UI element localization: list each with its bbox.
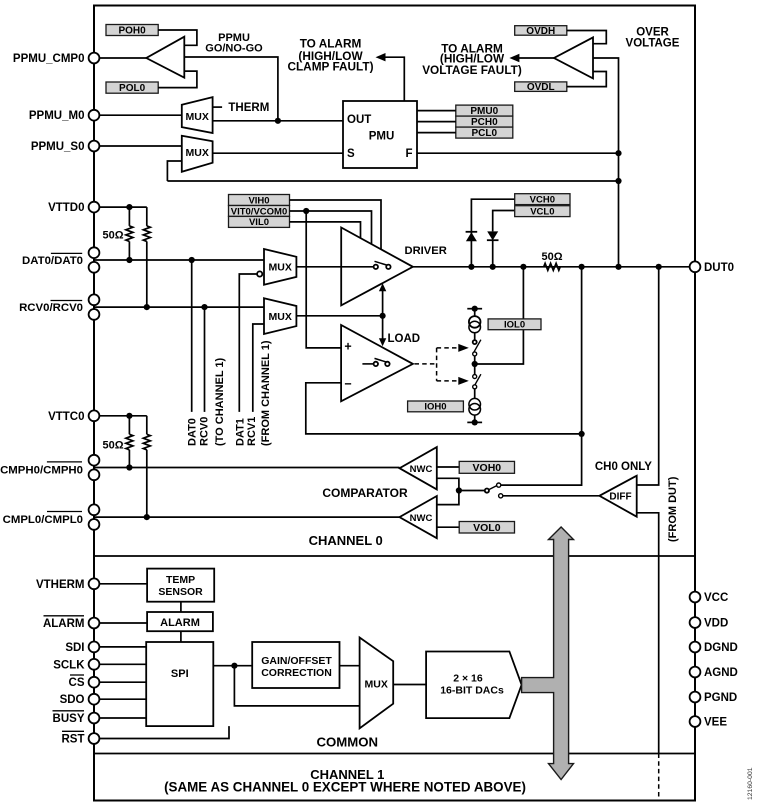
label RCV0/RCV0-bar (19, 301, 83, 314)
svg-text:DRIVER: DRIVER (405, 245, 447, 257)
svg-text:VCC: VCC (704, 592, 728, 604)
svg-text:VCL0: VCL0 (530, 207, 554, 218)
wire dot to switch pole (459, 490, 485, 492)
mux MUX5 (360, 638, 394, 729)
svg-text:−: − (344, 377, 351, 391)
wire VIH0 to driver (290, 200, 382, 250)
dashed wire from dut continuation (658, 754, 660, 798)
junction dot mux4 node (380, 313, 386, 319)
svg-text:PPMU_CMP0: PPMU_CMP0 (13, 53, 85, 65)
pin RST (89, 733, 100, 744)
svg-text:PGND: PGND (704, 692, 737, 704)
switch IOL upper (473, 340, 477, 344)
box PMU0 (456, 105, 513, 117)
svg-text:(TO CHANNEL 1): (TO CHANNEL 1) (214, 357, 226, 446)
box VIH0 (229, 195, 290, 207)
junction dot F line (615, 150, 621, 156)
wire OV comparator output arrow (512, 57, 554, 59)
op-amp LOAD (341, 325, 413, 401)
svg-text:50Ω: 50Ω (541, 251, 562, 263)
switch in driver (341, 266, 373, 268)
svg-text:TEMP: TEMP (166, 574, 195, 586)
svg-text:50Ω: 50Ω (103, 439, 124, 451)
arrowhead to alarm (clamp fault) (376, 53, 386, 61)
svg-text:PPMU_M0: PPMU_M0 (29, 110, 85, 122)
wire VTTD0 line (94, 206, 147, 208)
label PPMU_CMP0 (13, 53, 85, 65)
junction dot main line IOL chain (520, 264, 526, 270)
arrowhead IOL switch (458, 344, 469, 352)
label CMPL0/CMPL0-bar (3, 512, 83, 527)
svg-text:DGND: DGND (704, 642, 738, 654)
svg-text:(FROM DUT): (FROM DUT) (667, 476, 679, 542)
box VOH0 (459, 461, 514, 474)
resistor 50ohm R3 (VTTC0-CMPH0) (128, 416, 130, 435)
diode D1 (VCH0 clamp) (466, 231, 478, 233)
svg-text:MUX: MUX (269, 311, 292, 323)
switch IOH upper (473, 375, 477, 379)
junction dot comparator switch (456, 487, 462, 493)
pin VTHERM (89, 578, 100, 589)
wire POH0 to comparator (158, 30, 197, 45)
pin VEE (690, 716, 701, 727)
wire gain/offset to MUX5 (340, 665, 360, 667)
label PPMU_M0 (29, 110, 85, 122)
svg-text:RCV0: RCV0 (199, 417, 211, 446)
channel 0 / common separator line (94, 555, 695, 557)
resistor 50ohm output (544, 263, 561, 270)
wire ALARM pin to alarm block (94, 622, 147, 624)
box POL0 (106, 82, 158, 94)
svg-text:(SAME AS CHANNEL 0 EXCEPT WHER: (SAME AS CHANNEL 0 EXCEPT WHERE NOTED AB… (164, 780, 526, 795)
label VTTC0 (48, 411, 84, 423)
wire MUX2 to PMU S (213, 152, 343, 154)
box VIL0 (229, 216, 290, 228)
wire NWC2 upper input (437, 491, 459, 505)
svg-text:CORRECTION: CORRECTION (261, 667, 332, 679)
junction dot loop line (615, 178, 621, 184)
wire chain center to main line (475, 267, 524, 364)
junction dot chain center (472, 361, 478, 367)
mux MUX1 (182, 97, 213, 133)
svg-text:CMPL0/CMPL0: CMPL0/CMPL0 (3, 514, 83, 526)
wire NWC1 lower input (437, 478, 459, 490)
svg-text:IOH0: IOH0 (424, 402, 446, 413)
svg-text:GAIN/OFFSET: GAIN/OFFSET (261, 655, 332, 667)
label PPMU GO/NO-GO (205, 32, 263, 55)
block ALARM (147, 612, 213, 631)
pin CMPL0 (double circle) (89, 504, 100, 515)
resistor 50ohm R2 (VTTD0-RCV0) (146, 207, 148, 226)
label VTTD0 (48, 202, 84, 214)
svg-text:BUSY: BUSY (53, 713, 85, 725)
pin CS (89, 677, 100, 688)
common / channel 1 separator line (94, 753, 695, 755)
wire MUX4 output (296, 315, 382, 317)
svg-text:16-BIT DACs: 16-BIT DACs (440, 685, 504, 697)
wire MUX3 output to driver (296, 266, 375, 268)
junction dot SPI output (231, 663, 237, 669)
wire diode D1 to VCH0 (470, 232, 472, 267)
svg-text:SENSOR: SENSOR (158, 586, 203, 598)
wire diode D2 to VCL0 (492, 240, 494, 267)
switch in load (362, 363, 373, 365)
svg-text:DIFF: DIFF (609, 492, 631, 503)
block PMU (343, 101, 417, 168)
svg-text:MUX: MUX (186, 111, 209, 123)
mux MUX2 (182, 136, 213, 172)
wire VTHERM to temp sensor (94, 583, 147, 585)
wire PPMU_M0 to MUX1 (94, 114, 182, 116)
svg-text:S: S (347, 148, 355, 160)
label TO ALARM CLAMP FAULT (287, 36, 373, 73)
op-amp DRIVER (341, 228, 413, 306)
dashed wire to IOH switch (437, 380, 460, 382)
arrowhead into load (379, 338, 386, 346)
svg-text:+: + (344, 339, 351, 353)
wire VTTC0 line (94, 415, 147, 417)
wire chain bottom rail (467, 421, 482, 423)
mux MUX3 (DAT0/DAT1) (264, 249, 296, 285)
wire PMU F output (417, 152, 619, 154)
svg-text:VDD: VDD (704, 618, 728, 630)
wire center to IOH switch (474, 364, 476, 375)
junction dot VTTD0 (126, 204, 132, 210)
wire POL0 to comparator (158, 71, 197, 88)
box OVDL (515, 82, 567, 93)
junction dot R1-DAT0 (126, 257, 132, 263)
dashed wire vertical (436, 348, 438, 381)
svg-text:PMU0: PMU0 (470, 106, 498, 117)
pin PGND (690, 692, 701, 703)
arrowhead IOH switch (458, 377, 469, 385)
svg-text:VTTD0: VTTD0 (48, 202, 84, 214)
dashed wire load output (415, 363, 437, 365)
wire driver output main line (413, 266, 695, 268)
box PCL0 (456, 127, 513, 139)
wire MUX5 to DACs (393, 684, 426, 686)
svg-text:SDO: SDO (60, 694, 85, 706)
box VCL0 (515, 206, 570, 218)
svg-text:COMPARATOR: COMPARATOR (322, 486, 408, 500)
svg-text:PPMU_S0: PPMU_S0 (31, 141, 85, 153)
wire RCV0 to channel 1 (204, 307, 206, 412)
label BUSY-bar (53, 711, 85, 725)
svg-text:MUX: MUX (186, 147, 209, 159)
wire chain bottom (474, 415, 476, 422)
junction dot main line OV line (615, 264, 621, 270)
wire OV comparator input (593, 58, 619, 267)
wire VIT0 to load + (306, 211, 341, 348)
pin SDO (89, 694, 100, 705)
wire DAT1 from channel 1 (239, 274, 256, 412)
label VTHERM (36, 579, 85, 591)
svg-text:DAT0/DAT0: DAT0/DAT0 (22, 255, 83, 267)
current source IOH0 (469, 398, 481, 410)
svg-text:12160-001: 12160-001 (747, 767, 754, 800)
svg-text:VTTC0: VTTC0 (48, 411, 84, 423)
svg-text:LOAD: LOAD (388, 333, 421, 345)
svg-text:VOLTAGE FAULT): VOLTAGE FAULT) (422, 63, 522, 77)
junction dot D1 (468, 264, 474, 270)
pin AGND (690, 667, 701, 678)
label SCLK (53, 659, 85, 671)
svg-text:OVDL: OVDL (527, 82, 555, 93)
svg-text:PMU: PMU (369, 131, 395, 143)
svg-text:OUT: OUT (347, 114, 371, 126)
label DAT0/DAT0-bar (22, 253, 83, 266)
inverter bubble MUX3 input (257, 271, 262, 276)
svg-text:VOL0: VOL0 (473, 522, 501, 534)
svg-text:VCH0: VCH0 (530, 195, 555, 206)
svg-text:DAT0: DAT0 (187, 418, 199, 446)
current source IOL0 (469, 316, 481, 328)
wire SCLK to SPI (94, 663, 146, 665)
wire VIL0 to driver (290, 222, 361, 239)
junction dot MUX1-PMU / comparator (275, 118, 281, 124)
junction dot main line FROM DUT (656, 264, 662, 270)
buffer NWC1 (400, 447, 437, 489)
svg-text:2 × 16: 2 × 16 (453, 673, 483, 685)
pin DUT0 (690, 261, 701, 272)
wire load - input feedback (306, 383, 582, 434)
svg-text:PCH0: PCH0 (471, 117, 498, 128)
wire MUX2 second input from loop line (167, 161, 181, 181)
box POH0 (106, 25, 158, 37)
box IOL0 (488, 319, 541, 331)
pin DGND (690, 642, 701, 653)
dashed wire to IOL switch (437, 347, 460, 349)
junction dot VTTC-R1 CMPH0 (126, 464, 132, 470)
wire RCV0 line (94, 306, 264, 308)
pin DAT0 (double circle) (89, 247, 100, 258)
svg-text:F: F (405, 148, 412, 160)
wire switch to DUT0 sense (501, 267, 582, 485)
svg-text:VOH0: VOH0 (473, 462, 502, 474)
wire OVDH to OV comparator (567, 31, 607, 44)
resistor 50ohm R4 (VTTC0-CMPL0) (146, 416, 148, 435)
wire VIT0 to driver (290, 211, 372, 245)
wire chain (474, 309, 476, 317)
svg-text:DUT0: DUT0 (704, 262, 734, 274)
svg-text:CH0 ONLY: CH0 ONLY (595, 461, 652, 473)
wire mux4 node vertical (382, 285, 384, 344)
wire CMPH0 line (94, 467, 400, 469)
pin VDD (690, 617, 701, 628)
svg-text:OVDH: OVDH (526, 26, 555, 37)
svg-text:CS: CS (69, 677, 85, 689)
label CMPH0/CMPH0-bar (0, 462, 83, 477)
amp DIFF (CH0 only) (599, 476, 636, 517)
pin SCLK (89, 659, 100, 670)
wire BUSY to SPI (94, 717, 146, 719)
svg-text:ALARM: ALARM (43, 618, 85, 630)
switch comparator source (485, 489, 489, 493)
wire alarm to spi (180, 631, 182, 642)
svg-text:SDI: SDI (65, 642, 84, 654)
label SDO (60, 694, 85, 706)
svg-text:50Ω: 50Ω (103, 230, 124, 242)
svg-text:THERM: THERM (228, 102, 269, 114)
svg-text:AGND: AGND (704, 667, 738, 679)
svg-text:CLAMP FAULT): CLAMP FAULT) (287, 60, 373, 74)
svg-text:VIH0: VIH0 (248, 195, 269, 206)
label CS-bar (69, 675, 85, 689)
svg-text:NWC: NWC (410, 513, 433, 524)
buffer NWC2 (400, 496, 437, 538)
label PPMU_S0 (31, 141, 85, 153)
svg-text:GO/NO-GO: GO/NO-GO (205, 43, 263, 55)
junction dot R2-RCV0 (144, 304, 150, 310)
pin VTTC0 (89, 410, 100, 421)
junction dot VTTC-R2 CMPL0 (144, 514, 150, 520)
wire chain top rail (467, 308, 482, 310)
pin PPMU_M0 (89, 110, 100, 121)
svg-text:COMMON: COMMON (317, 734, 379, 749)
junction dot DAT0 branch (189, 257, 195, 263)
junction dot D2 (490, 264, 496, 270)
block SPI (146, 642, 213, 726)
junction dot main line cmp switch (579, 264, 585, 270)
svg-text:(FROM CHANNEL 1): (FROM CHANNEL 1) (260, 340, 272, 446)
pin VCC (690, 592, 701, 603)
wire PMU to PCL0 (417, 132, 456, 134)
wire temp sensor to alarm (180, 602, 182, 612)
junction dot feedback (579, 431, 585, 437)
wire DIFF lower input from DUT1 (637, 513, 659, 754)
svg-text:SCLK: SCLK (53, 659, 85, 671)
svg-text:MUX: MUX (365, 678, 388, 690)
box PCH0 (456, 116, 513, 128)
mux MUX4 (RCV0/RCV1) (264, 298, 296, 334)
pin BUSY (89, 713, 100, 724)
pin RCV0 (double circle) (89, 294, 100, 305)
svg-text:VTHERM: VTHERM (36, 579, 85, 591)
junction dot RCV0 branch (201, 304, 207, 310)
svg-text:DAT1: DAT1 (235, 418, 247, 446)
svg-text:VOLTAGE: VOLTAGE (626, 37, 680, 49)
arrowhead into driver (379, 283, 386, 291)
junction dot VTTC0 (126, 413, 132, 419)
svg-text:ALARM: ALARM (160, 617, 200, 629)
resistor 50ohm R1 (VTTD0-DAT0) (128, 207, 130, 226)
label TO ALARM VOLTAGE FAULT (422, 41, 522, 77)
box VCH0 (515, 194, 570, 206)
pin PPMU_CMP0 (89, 53, 100, 64)
wire SDO to SPI (94, 698, 146, 700)
arrowhead to alarm (voltage fault) (509, 54, 519, 62)
box OVDH (515, 26, 567, 37)
svg-text:CMPH0/CMPH0: CMPH0/CMPH0 (0, 465, 83, 477)
wire PMU to PCH0 (417, 121, 456, 123)
wire DIFF upper input from DUT0 (637, 267, 659, 485)
svg-text:RST: RST (62, 734, 85, 746)
svg-text:RCV1: RCV1 (246, 417, 258, 446)
wire SPI output to MUX5 lower (234, 666, 359, 706)
pin CMPH0 (double circle) (89, 455, 100, 466)
pin PPMU_S0 (89, 141, 100, 152)
wire loop line to mux2 (167, 180, 618, 182)
diode D2 (VCL0 clamp) (487, 231, 498, 240)
label SDI (65, 642, 84, 654)
wire switch to center (474, 356, 476, 364)
wire comparator output to PPMU_CMP0 (94, 57, 146, 59)
svg-text:VIT0/VCOM0: VIT0/VCOM0 (231, 206, 288, 217)
label RST-bar (62, 731, 85, 745)
svg-text:NWC: NWC (410, 464, 433, 475)
pin VTTD0 (89, 202, 100, 213)
pin SDI (89, 642, 100, 653)
wire THERM stub (213, 106, 223, 108)
wire DAT0 line (94, 259, 264, 261)
block 16-BIT DACs (426, 652, 521, 719)
wire PMU to PMU0 (417, 110, 456, 112)
wire DAT0 to channel 1 (191, 260, 193, 412)
svg-text:POL0: POL0 (119, 83, 146, 94)
wire cs to switch (474, 333, 476, 340)
wire MUX1 to PMU OUT (213, 120, 343, 122)
svg-text:RCV0/RCV0: RCV0/RCV0 (19, 302, 83, 314)
wire NWC2 to VOL0 (437, 526, 459, 528)
box IOH0 (408, 401, 464, 413)
wire RST to SPI (94, 726, 229, 738)
wire PPMU_S0 to MUX2 (94, 145, 182, 147)
comparator U1 PPMU go/no-go (146, 37, 184, 78)
wire SDI to SPI (94, 646, 146, 648)
wire NWC1 to VOH0 (437, 466, 459, 468)
junction dot VIT0 (303, 208, 309, 214)
svg-text:MUX: MUX (269, 262, 292, 274)
svg-text:VEE: VEE (704, 717, 727, 729)
svg-text:POH0: POH0 (118, 26, 146, 37)
wire OVDL to OV comparator (567, 72, 607, 87)
chip outline border (94, 6, 695, 801)
label ALARM-bar (43, 616, 85, 630)
wire RCV1 from channel 1 (253, 324, 264, 412)
label OVER VOLTAGE (626, 26, 680, 49)
wire comparator input from PMU OUT line (184, 57, 278, 121)
wire switch to IOH cs (474, 389, 476, 399)
svg-text:VIL0: VIL0 (249, 217, 269, 228)
svg-text:SPI: SPI (171, 668, 189, 680)
comparator U2 overvoltage (554, 37, 593, 78)
wire CS to SPI (94, 681, 146, 683)
wire PMU top to alarm arrow (378, 57, 404, 101)
wire switch to DIFF (503, 495, 600, 497)
box VOL0 (459, 522, 514, 534)
gray bus arrow (522, 527, 574, 780)
wire SPI to gain/offset (213, 665, 252, 667)
block TEMP SENSOR (147, 569, 214, 602)
box VIT0/VCOM0 (229, 206, 290, 218)
block GAIN/OFFSET CORRECTION (252, 642, 339, 688)
svg-text:CHANNEL 0: CHANNEL 0 (309, 533, 383, 548)
svg-text:IOL0: IOL0 (504, 320, 525, 331)
svg-text:PCL0: PCL0 (472, 128, 498, 139)
wire CMPL0 line (94, 516, 400, 518)
pin ALARM (89, 618, 100, 629)
